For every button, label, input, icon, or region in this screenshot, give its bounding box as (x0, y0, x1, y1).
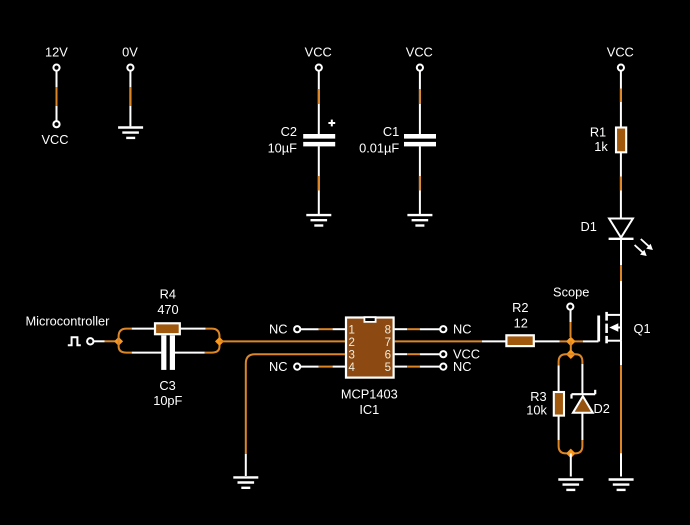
svg-text:10k: 10k (526, 403, 547, 418)
svg-text:1: 1 (349, 324, 355, 336)
svg-text:VCC: VCC (607, 45, 634, 60)
svg-text:VCC: VCC (305, 45, 332, 60)
wire bracket top right (571, 354, 583, 364)
svg-text:1k: 1k (594, 139, 608, 154)
wire fork to R4 (orange corner) (119, 329, 132, 342)
svg-text:IC1: IC1 (359, 402, 379, 417)
svg-text:Q1: Q1 (634, 321, 651, 336)
wire pin 3 to ground (246, 354, 345, 476)
svg-text:VCC: VCC (406, 45, 433, 60)
svg-text:0V: 0V (122, 45, 138, 60)
ground (C2) (306, 215, 331, 225)
svg-text:Microcontroller: Microcontroller (26, 314, 111, 329)
svg-text:C1: C1 (383, 124, 399, 139)
wire to C3 (white) (132, 352, 162, 354)
wire junction to ground (570, 453, 572, 476)
svg-text:MCP1403: MCP1403 (341, 387, 398, 402)
LED D1 (581, 219, 653, 257)
ground (R3/D2) (558, 480, 583, 490)
ground (pin 3) (233, 477, 258, 487)
wire junction to pin 2 (220, 340, 346, 342)
svg-text:5: 5 (385, 362, 391, 374)
svg-text:NC: NC (269, 359, 287, 374)
wire bracket top left (559, 354, 571, 365)
svg-text:2: 2 (349, 337, 355, 349)
junction (R3/D2 top) (566, 349, 576, 359)
wire bracket bottom right (571, 440, 583, 453)
svg-text:D1: D1 (581, 219, 597, 234)
svg-text:7: 7 (385, 337, 391, 349)
junction (R4/C3 right) (215, 337, 224, 346)
ground (0V) (118, 128, 143, 138)
pin 1 NC wire (269, 321, 345, 336)
pin 8 NC wire (395, 321, 472, 336)
ground (C1) (407, 215, 432, 225)
capacitor C1 (359, 45, 436, 215)
svg-text:10µF: 10µF (268, 141, 298, 156)
pin 5 NC wire (395, 359, 472, 374)
power flag 12V (41, 45, 68, 148)
capacitor C2 (268, 45, 336, 215)
transistor Q1 (599, 312, 651, 343)
node Scope (553, 285, 589, 337)
junction (R4/C3 left) (114, 337, 123, 346)
wire Q1 source to ground (620, 341, 622, 477)
svg-text:NC: NC (453, 321, 471, 336)
ground (Q1 source) (609, 480, 634, 490)
junction (scope node) (566, 337, 576, 347)
svg-text:NC: NC (269, 321, 287, 336)
svg-text:D2: D2 (594, 401, 610, 416)
pin 4 NC wire (269, 359, 345, 374)
svg-text:R1: R1 (590, 125, 606, 140)
wire to R4 (white) (132, 328, 155, 330)
resistor R2 (395, 300, 567, 346)
svg-text:4: 4 (349, 362, 356, 374)
svg-text:R4: R4 (160, 287, 176, 302)
svg-text:12: 12 (514, 316, 528, 331)
capacitor C3 (153, 335, 219, 408)
wire junction to junction (570, 341, 572, 354)
svg-text:6: 6 (385, 349, 391, 361)
wire bracket bottom left (559, 440, 571, 453)
resistor R1 (590, 45, 634, 219)
pin 6 VCC wire (395, 347, 480, 362)
svg-text:3: 3 (349, 349, 355, 361)
wire fork to C3 (orange corner) (119, 341, 132, 352)
svg-text:Scope: Scope (553, 285, 589, 300)
svg-text:C3: C3 (159, 378, 175, 393)
svg-text:12V: 12V (45, 45, 68, 60)
wire Q1 gate (575, 340, 599, 342)
node Microcontroller input (26, 314, 117, 346)
svg-text:R2: R2 (512, 300, 528, 315)
svg-text:C2: C2 (281, 124, 297, 139)
svg-text:8: 8 (385, 324, 391, 336)
svg-text:NC: NC (453, 359, 471, 374)
IC IC1 MCP1403 (341, 317, 398, 417)
wire D1 to Q1 drain (620, 239, 622, 315)
junction (R3/D2 bottom) (566, 449, 576, 459)
svg-text:0.01µF: 0.01µF (359, 141, 399, 156)
svg-text:470: 470 (157, 302, 178, 317)
resistor R3 (526, 366, 564, 441)
svg-text:10pF: 10pF (153, 393, 182, 408)
resistor R4 (155, 287, 220, 342)
zener diode D2 (572, 364, 610, 440)
power flag 0V (122, 45, 138, 127)
svg-text:VCC: VCC (41, 132, 68, 147)
